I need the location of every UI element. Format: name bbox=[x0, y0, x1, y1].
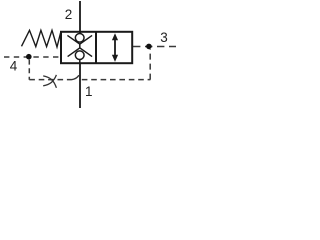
port 3 pilot line (dashed) bbox=[133, 46, 176, 48]
port 3 pilot down-leg (dashed) bbox=[149, 49, 151, 80]
check valve seat inverted V (lower) bbox=[68, 48, 93, 57]
valve body envelope (two cells) bbox=[61, 32, 132, 63]
wire stub to bottom edge bbox=[79, 59, 81, 63]
envelope divider bbox=[95, 32, 97, 63]
check valve seat V (upper) bbox=[67, 35, 92, 44]
svg-text:3: 3 bbox=[160, 30, 168, 45]
port 4 pilot line (dashed) bbox=[4, 56, 61, 58]
port 2 line bbox=[79, 1, 81, 34]
svg-text:4: 4 bbox=[10, 59, 18, 74]
check valve ball (lower) bbox=[75, 51, 84, 60]
bottom pilot line right segment (dashed) bbox=[82, 79, 151, 81]
bottom pilot line left segment (dashed) bbox=[29, 79, 71, 81]
pilot line hop at port 1 line bbox=[72, 75, 79, 79]
double-headed arrow (right cell) bbox=[112, 33, 118, 62]
orifice arc B bbox=[43, 75, 56, 86]
check valve ball (upper) bbox=[75, 33, 84, 42]
svg-text:1: 1 bbox=[85, 84, 93, 99]
port 3 junction dot bbox=[146, 44, 152, 50]
port 4 pilot down-leg (dashed) bbox=[28, 60, 30, 80]
orifice arc A bbox=[43, 76, 56, 88]
svg-text:2: 2 bbox=[65, 7, 73, 22]
port 1 line bbox=[79, 63, 81, 108]
wire stub between checks bbox=[79, 44, 81, 48]
spring bbox=[22, 30, 62, 47]
port 4 junction dot bbox=[26, 54, 32, 60]
